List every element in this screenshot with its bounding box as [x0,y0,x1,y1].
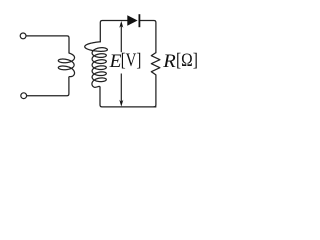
wire secondary coil bottom lead and bottom rail [100,87,156,107]
voltage arrow head down (at bottom wire) [119,100,123,107]
diode D1 cathode bar [139,14,141,27]
wire secondary coil top lead to diode anode [100,21,127,42]
terminal T1 (top-left open circle) [20,33,26,39]
wire primary coil bottom to T2 [27,78,69,96]
resistor R zigzag [151,53,160,107]
voltage arrow E stem upper [120,23,122,52]
svg-text:[V]: [V] [121,50,142,71]
terminal T2 (bottom-left open circle) [21,93,27,99]
svg-text:R: R [162,51,176,72]
wire diode cathode to resistor top [140,21,156,53]
voltage arrow E stem lower [120,74,122,104]
inductor L1 primary winding [58,53,74,78]
voltage arrow head up (at top wire) [119,21,123,28]
svg-text:[Ω]: [Ω] [176,50,198,71]
inductor L2 secondary winding [85,42,108,88]
wire T1 to primary coil top [26,36,69,53]
diode D1 triangle (anode) [127,15,137,25]
